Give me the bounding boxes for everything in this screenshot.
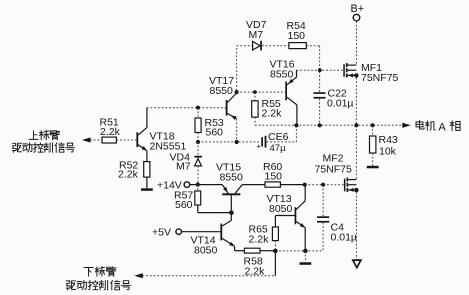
transistor VT13 8050 xyxy=(295,207,297,224)
wire input to R51 xyxy=(90,139,102,141)
wire VT16 collector to motor line xyxy=(296,105,298,125)
svg-text:10k: 10k xyxy=(379,146,397,158)
wire rail R53-VT17-CE6 xyxy=(198,141,261,143)
wire VT16 emitter to MF1 gate xyxy=(297,69,344,71)
node label: lower drive signal text line1 (xia-qiao-bi) xyxy=(84,268,93,277)
wire B+ to MF1 drain xyxy=(356,21,358,65)
svg-text:A: A xyxy=(439,121,447,133)
wire CE6 to motor line xyxy=(267,141,297,143)
svg-text:2.2k: 2.2k xyxy=(262,108,283,120)
transistor VT14 8050 xyxy=(220,224,222,241)
node R55 top junction xyxy=(253,90,257,94)
svg-text:R43: R43 xyxy=(379,134,398,146)
wire VT17 emitter to VD7 anode xyxy=(236,46,238,91)
MOSFET MF1 75NF75 xyxy=(343,64,345,77)
svg-text:47µ: 47µ xyxy=(270,143,287,154)
svg-text:2.2k: 2.2k xyxy=(100,126,121,138)
node motor-R43 junction xyxy=(371,123,375,127)
node input arrow (lower drive signal) xyxy=(134,273,143,278)
ground triangle below MF2 xyxy=(353,260,361,268)
wire R55 to motor line xyxy=(254,117,256,125)
resistor R51 xyxy=(102,137,116,143)
svg-text:150: 150 xyxy=(265,171,283,183)
ground below R43 xyxy=(372,153,374,166)
svg-text:8550: 8550 xyxy=(270,69,294,81)
svg-text:M7: M7 xyxy=(249,29,264,41)
svg-text:75NF75: 75NF75 xyxy=(315,164,353,176)
node rail-R53 junction xyxy=(196,140,200,144)
wire lower drive signal line xyxy=(143,275,276,277)
svg-text:8550: 8550 xyxy=(210,85,234,97)
diode VD7 xyxy=(253,42,261,51)
resistor R53 xyxy=(197,108,199,118)
wire VT17 collector down to rail xyxy=(236,119,238,142)
capacitor C22 xyxy=(314,92,326,94)
svg-text:2.2k: 2.2k xyxy=(118,169,139,181)
diode VD4 xyxy=(197,142,199,156)
node motor-C22 junction xyxy=(318,123,322,127)
node R57 top junction xyxy=(196,183,200,187)
svg-text:0.01µ: 0.01µ xyxy=(327,98,354,110)
wire VT18 collector up xyxy=(146,108,148,128)
node rail-VT17 junction xyxy=(235,140,239,144)
node label: motor phase A text (dian-ji A xiang) xyxy=(416,121,424,129)
wire bottom rail xyxy=(275,250,323,252)
resistor R57 xyxy=(197,185,199,191)
resistor R52 xyxy=(144,162,150,178)
wire collector rail to VT17 base xyxy=(147,107,226,109)
resistor R60 xyxy=(242,184,265,186)
MOSFET MF2 75NF75 xyxy=(344,179,346,192)
node motor output arrow xyxy=(402,123,411,128)
resistor R43 xyxy=(372,125,374,136)
node input arrow (upper drive signal) xyxy=(82,137,91,142)
node VT17 emitter junction xyxy=(235,90,239,94)
svg-text:+: + xyxy=(257,141,262,150)
svg-text:B+: B+ xyxy=(351,3,365,15)
svg-text:8050: 8050 xyxy=(269,203,293,215)
ground below R52 xyxy=(146,177,148,188)
transistor VT16 8550 xyxy=(285,82,287,101)
svg-text:150: 150 xyxy=(288,30,306,42)
node R53 top junction xyxy=(196,106,200,110)
capacitor C4 xyxy=(322,185,324,217)
node R60-VT13 junction xyxy=(303,183,307,187)
wire motor phase A line xyxy=(255,124,410,126)
wire MF1 source to motor line xyxy=(355,78,357,126)
svg-text:8550: 8550 xyxy=(220,172,244,184)
svg-text:CE6: CE6 xyxy=(268,131,289,143)
svg-text:8050: 8050 xyxy=(194,245,218,257)
wire +14V to VT15 emitter xyxy=(190,184,222,186)
wire C22 to motor line xyxy=(319,99,321,126)
wire MF2 source down xyxy=(355,192,357,260)
ground below VT13 xyxy=(304,251,306,262)
wire VT18 emitter to R52 xyxy=(146,151,148,162)
wire VT14 collector up xyxy=(230,215,232,221)
wire R57 to VT15 base node xyxy=(197,205,199,213)
wire VT15 base down xyxy=(230,195,232,212)
wire VT13 emitter down xyxy=(304,228,306,251)
wire VD7 to R54 xyxy=(262,45,289,47)
capacitor CE6 47u xyxy=(261,137,263,146)
wire gate rail to MF2 xyxy=(305,184,344,186)
wire emitter node to VT16 base xyxy=(237,91,286,93)
node bottom rail R58 junction xyxy=(273,249,278,254)
svg-text:M7: M7 xyxy=(176,161,191,173)
node motor-MF junction xyxy=(354,123,358,127)
svg-text:2.2k: 2.2k xyxy=(249,234,270,246)
resistor R65 xyxy=(274,216,276,228)
resistor R54 xyxy=(289,43,306,49)
svg-text:560: 560 xyxy=(206,127,224,139)
transistor VT18 2N5551 xyxy=(136,132,138,147)
node label: upper drive signal text line1 (shang-qiao-bi) xyxy=(29,131,38,140)
node label: lower drive signal text line2 (qu-dong-kong-zhi-xin-hao) xyxy=(66,281,76,290)
wire R54 to C22/MF1-gate node xyxy=(306,45,319,47)
resistor R58 xyxy=(244,248,260,253)
wire VT13 collector up xyxy=(304,185,306,201)
wire VT14 emitter to R58 xyxy=(234,246,236,250)
wire R51 to VT18 base xyxy=(116,139,136,141)
svg-text:+5V: +5V xyxy=(152,227,171,239)
svg-text:0.01µ: 0.01µ xyxy=(331,232,358,244)
node motor-VT16 junction xyxy=(294,123,298,127)
wire VT13 base xyxy=(275,215,294,217)
node VT15 base / VT14 collector junction xyxy=(229,210,234,215)
wire R58 node to lower signal line xyxy=(274,251,276,276)
wire MF2 drain to motor line xyxy=(355,125,357,179)
transistor VT17 8550 xyxy=(226,100,228,116)
wire VT16 emitter up xyxy=(296,70,298,77)
svg-text:75NF75: 75NF75 xyxy=(361,72,399,84)
node MF1 gate junction xyxy=(318,68,322,72)
node bottom rail VT13 junction xyxy=(303,249,308,254)
transistor VT15 8550 xyxy=(222,193,240,195)
wire +5V to VT14 base xyxy=(182,231,221,233)
svg-text:560: 560 xyxy=(175,199,193,211)
node label: upper drive signal text line2 (qu-dong-kong-zhi-xin-hao) xyxy=(12,143,22,152)
resistor R55 xyxy=(254,92,256,101)
node C4 top junction xyxy=(321,183,325,187)
